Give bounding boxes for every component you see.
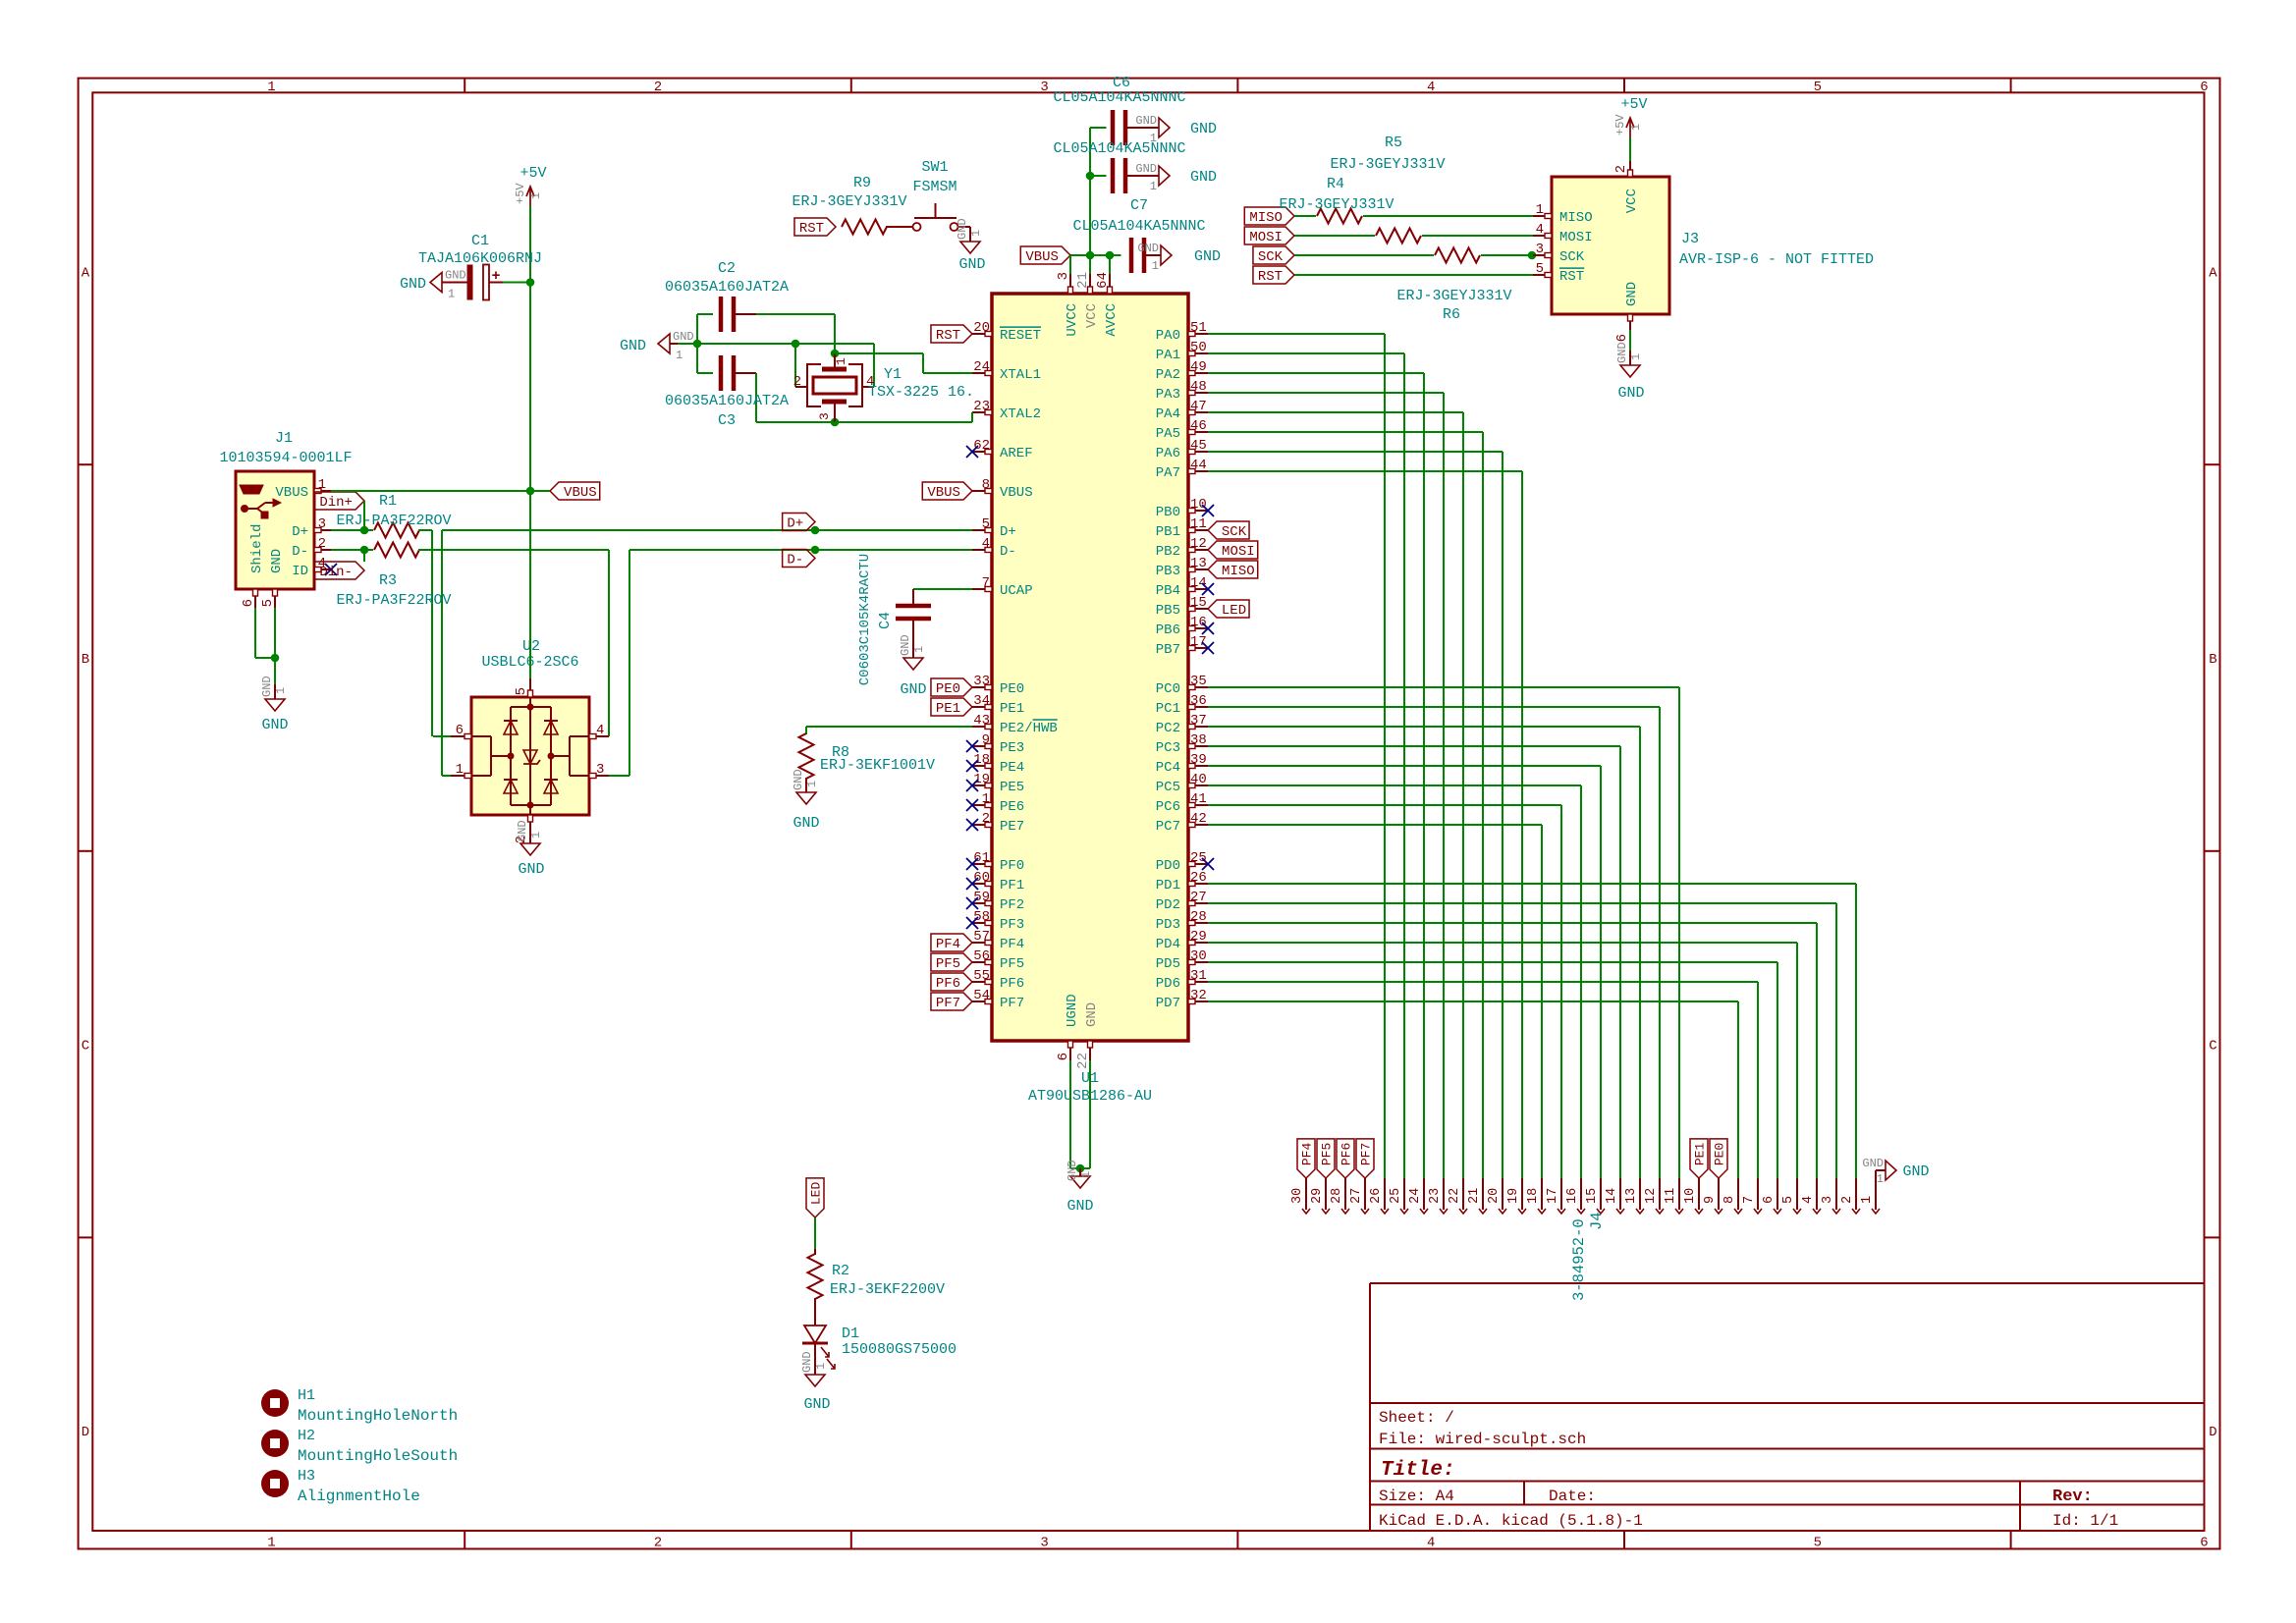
svg-text:ID: ID	[292, 564, 308, 579]
svg-text:GND: GND	[1190, 169, 1217, 186]
svg-text:5: 5	[260, 599, 276, 607]
svg-text:VBUS: VBUS	[1000, 485, 1033, 501]
svg-text:30: 30	[1190, 948, 1207, 964]
svg-text:40: 40	[1190, 772, 1207, 787]
svg-text:27: 27	[1190, 890, 1207, 905]
svg-text:MISO: MISO	[1249, 210, 1283, 226]
svg-text:61: 61	[973, 850, 990, 866]
svg-text:GND: GND	[269, 549, 285, 573]
svg-text:ERJ-3GEYJ331V: ERJ-3GEYJ331V	[1330, 156, 1445, 173]
svg-text:11: 11	[1664, 1188, 1678, 1204]
svg-text:PC0: PC0	[1156, 681, 1180, 697]
svg-text:UGND: UGND	[1065, 994, 1080, 1027]
svg-text:SW1: SW1	[921, 159, 948, 176]
svg-text:59: 59	[973, 890, 990, 905]
svg-text:AVCC: AVCC	[1104, 303, 1120, 337]
svg-text:3: 3	[1040, 1536, 1048, 1551]
svg-text:51: 51	[1190, 320, 1207, 336]
svg-text:PF0: PF0	[1000, 858, 1024, 874]
svg-text:46: 46	[1190, 418, 1207, 434]
svg-text:ERJ-3GEYJ331V: ERJ-3GEYJ331V	[1279, 196, 1394, 213]
svg-text:PA0: PA0	[1156, 328, 1180, 344]
svg-text:MountingHoleSouth: MountingHoleSouth	[298, 1447, 458, 1465]
svg-text:Title:: Title:	[1381, 1459, 1455, 1482]
svg-text:PD3: PD3	[1156, 917, 1180, 933]
svg-text:56: 56	[973, 948, 990, 964]
svg-text:+5V: +5V	[1613, 114, 1627, 135]
svg-text:PF2: PF2	[1000, 897, 1024, 913]
svg-text:PE0: PE0	[1000, 681, 1024, 697]
svg-text:GND: GND	[1615, 342, 1629, 363]
svg-text:2: 2	[1840, 1196, 1855, 1204]
svg-text:PD2: PD2	[1156, 897, 1180, 913]
svg-text:PD0: PD0	[1156, 858, 1180, 874]
svg-text:1: 1	[1536, 202, 1544, 218]
svg-text:GND: GND	[800, 1351, 814, 1373]
svg-text:C0603C105K4RACTU: C0603C105K4RACTU	[857, 554, 873, 685]
svg-text:R6: R6	[1443, 306, 1460, 323]
svg-text:GND: GND	[958, 256, 985, 273]
svg-text:PE6: PE6	[1000, 799, 1024, 815]
svg-text:1: 1	[1152, 259, 1159, 273]
svg-text:File: wired-sculpt.sch: File: wired-sculpt.sch	[1379, 1431, 1586, 1448]
svg-text:13: 13	[1624, 1188, 1639, 1204]
svg-text:PC3: PC3	[1156, 740, 1180, 756]
svg-text:PF3: PF3	[1000, 917, 1024, 933]
svg-text:Rev:: Rev:	[2052, 1488, 2093, 1506]
svg-text:PB6: PB6	[1156, 622, 1180, 638]
svg-text:4: 4	[596, 723, 604, 738]
svg-text:PE1: PE1	[936, 701, 960, 717]
svg-text:PC2: PC2	[1156, 721, 1180, 736]
svg-text:14: 14	[1190, 575, 1207, 591]
svg-text:28: 28	[1330, 1188, 1344, 1204]
svg-text:6: 6	[2200, 1536, 2208, 1551]
svg-text:23: 23	[973, 399, 990, 414]
svg-text:UCAP: UCAP	[1000, 583, 1033, 599]
svg-text:D-: D-	[292, 544, 308, 560]
svg-text:PF6: PF6	[1000, 976, 1024, 992]
svg-text:PD1: PD1	[1156, 878, 1180, 893]
svg-text:PE7: PE7	[1000, 819, 1024, 835]
svg-text:+5V: +5V	[519, 165, 546, 182]
svg-text:14: 14	[1605, 1188, 1619, 1204]
svg-text:+: +	[491, 268, 500, 285]
svg-text:PA7: PA7	[1156, 465, 1180, 481]
svg-text:Din-: Din-	[319, 565, 353, 580]
svg-text:PF6: PF6	[1339, 1143, 1354, 1165]
svg-text:D: D	[2209, 1425, 2216, 1440]
svg-text:PC7: PC7	[1156, 819, 1180, 835]
svg-text:PF4: PF4	[1300, 1143, 1315, 1166]
svg-text:1: 1	[274, 687, 288, 694]
svg-text:2: 2	[1613, 165, 1629, 173]
svg-text:29: 29	[1190, 929, 1207, 945]
svg-text:16: 16	[1190, 615, 1207, 630]
svg-text:Shield: Shield	[249, 524, 265, 573]
svg-text:GND: GND	[803, 1396, 830, 1413]
svg-text:C4: C4	[877, 612, 894, 629]
svg-text:6: 6	[1056, 1053, 1071, 1060]
svg-text:PF5: PF5	[1320, 1143, 1335, 1165]
svg-text:33: 33	[973, 674, 990, 689]
svg-text:12: 12	[1644, 1188, 1659, 1204]
svg-text:10: 10	[1190, 497, 1207, 513]
svg-text:C: C	[2209, 1039, 2216, 1055]
svg-text:GND: GND	[261, 717, 288, 733]
svg-text:VBUS: VBUS	[564, 485, 597, 501]
svg-text:PB5: PB5	[1156, 603, 1180, 619]
svg-text:21: 21	[1075, 272, 1091, 289]
svg-text:GND: GND	[1617, 385, 1644, 402]
svg-text:44: 44	[1190, 458, 1207, 473]
svg-text:PD5: PD5	[1156, 956, 1180, 972]
svg-text:10: 10	[1683, 1188, 1698, 1204]
svg-text:GND: GND	[620, 338, 646, 354]
svg-text:8: 8	[982, 477, 990, 493]
svg-text:43: 43	[973, 713, 990, 729]
svg-text:PF4: PF4	[1000, 937, 1024, 952]
svg-text:1: 1	[676, 349, 683, 362]
svg-text:3: 3	[1040, 80, 1048, 95]
svg-text:PB3: PB3	[1156, 564, 1180, 579]
svg-text:8: 8	[1722, 1196, 1737, 1204]
svg-text:3: 3	[1821, 1196, 1835, 1204]
svg-text:RST: RST	[1258, 269, 1283, 285]
svg-text:11: 11	[1190, 516, 1207, 532]
svg-text:PF1: PF1	[1000, 878, 1024, 893]
svg-text:PC1: PC1	[1156, 701, 1180, 717]
svg-text:A: A	[82, 265, 90, 281]
svg-text:AlignmentHole: AlignmentHole	[298, 1488, 420, 1505]
svg-text:ERJ-PA3F22ROV: ERJ-PA3F22ROV	[336, 592, 451, 609]
svg-text:XTAL1: XTAL1	[1000, 367, 1041, 383]
svg-text:Id: 1/1: Id: 1/1	[2052, 1512, 2118, 1530]
svg-text:1: 1	[1629, 124, 1643, 131]
svg-text:9: 9	[982, 732, 990, 748]
svg-text:PA1: PA1	[1156, 348, 1180, 363]
svg-text:ERJ-PA3F22ROV: ERJ-PA3F22ROV	[336, 513, 451, 529]
svg-text:06035A160JAT2A: 06035A160JAT2A	[665, 279, 789, 296]
svg-text:22: 22	[1448, 1188, 1462, 1204]
svg-text:PE0: PE0	[936, 681, 960, 697]
svg-text:R2: R2	[832, 1263, 849, 1279]
svg-text:1: 1	[1629, 353, 1643, 360]
svg-text:21: 21	[1467, 1188, 1482, 1204]
svg-text:1: 1	[912, 646, 926, 653]
svg-text:23: 23	[1428, 1188, 1443, 1204]
svg-text:54: 54	[973, 988, 990, 1003]
svg-text:17: 17	[1546, 1188, 1560, 1204]
svg-text:4: 4	[1427, 1536, 1435, 1551]
svg-text:RST: RST	[936, 328, 960, 344]
svg-text:PE1: PE1	[1000, 701, 1024, 717]
svg-text:GND: GND	[1190, 121, 1217, 137]
svg-text:GND: GND	[516, 820, 529, 841]
svg-text:1: 1	[834, 357, 848, 365]
svg-text:1: 1	[969, 230, 983, 237]
svg-text:16: 16	[1565, 1188, 1580, 1204]
svg-text:J3: J3	[1681, 231, 1699, 247]
svg-text:GND: GND	[1135, 114, 1157, 128]
svg-text:1: 1	[814, 1363, 828, 1370]
svg-text:Date:: Date:	[1549, 1488, 1596, 1505]
svg-text:R1: R1	[379, 493, 397, 510]
svg-text:28: 28	[1190, 909, 1207, 925]
svg-text:Size: A4: Size: A4	[1379, 1488, 1454, 1505]
svg-text:32: 32	[1190, 988, 1207, 1003]
svg-text:4: 4	[1536, 222, 1544, 238]
svg-text:D+: D+	[1000, 524, 1016, 540]
svg-text:MOSI: MOSI	[1559, 230, 1593, 245]
svg-text:60: 60	[973, 870, 990, 886]
svg-text:4: 4	[1427, 80, 1435, 95]
svg-text:55: 55	[973, 968, 990, 984]
svg-text:2: 2	[654, 80, 662, 95]
svg-text:C1: C1	[471, 233, 489, 249]
svg-text:29: 29	[1310, 1188, 1325, 1204]
svg-text:UVCC: UVCC	[1065, 303, 1080, 337]
svg-text:J1: J1	[275, 430, 293, 447]
svg-text:18: 18	[1526, 1188, 1541, 1204]
svg-text:RESET: RESET	[1000, 328, 1041, 344]
svg-text:ERJ-3GEYJ331V: ERJ-3GEYJ331V	[792, 193, 906, 210]
svg-text:PE2/HWB: PE2/HWB	[1000, 721, 1058, 736]
svg-text:R3: R3	[379, 572, 397, 589]
svg-text:R9: R9	[853, 175, 871, 191]
svg-text:R5: R5	[1385, 135, 1402, 151]
svg-text:7: 7	[982, 575, 990, 591]
svg-text:PF4: PF4	[936, 937, 960, 952]
svg-text:19: 19	[973, 772, 990, 787]
svg-text:C7: C7	[1130, 197, 1148, 214]
svg-text:PC5: PC5	[1156, 780, 1180, 795]
svg-text:64: 64	[1095, 272, 1111, 289]
svg-text:ERJ-3EKF1001V: ERJ-3EKF1001V	[820, 757, 935, 774]
svg-text:PC6: PC6	[1156, 799, 1180, 815]
svg-text:GND: GND	[1137, 242, 1159, 255]
svg-text:MISO: MISO	[1559, 210, 1593, 226]
svg-text:1: 1	[318, 477, 326, 493]
svg-text:GND: GND	[1862, 1157, 1884, 1170]
svg-text:PB1: PB1	[1156, 524, 1180, 540]
svg-text:1: 1	[1877, 1172, 1884, 1186]
svg-text:PA5: PA5	[1156, 426, 1180, 442]
svg-text:D: D	[82, 1425, 89, 1440]
svg-text:+5V: +5V	[1620, 96, 1647, 113]
svg-text:RST: RST	[799, 221, 824, 237]
svg-text:PA6: PA6	[1156, 446, 1180, 461]
svg-text:47: 47	[1190, 399, 1207, 414]
svg-text:GND: GND	[400, 276, 426, 293]
svg-text:13: 13	[1190, 556, 1207, 571]
svg-text:41: 41	[1190, 791, 1207, 807]
svg-text:TAJA106K006RNJ: TAJA106K006RNJ	[418, 250, 542, 267]
svg-text:10103594-0001LF: 10103594-0001LF	[219, 450, 352, 466]
svg-text:GND: GND	[900, 681, 926, 698]
svg-text:MISO: MISO	[1222, 564, 1255, 579]
svg-text:06035A160JAT2A: 06035A160JAT2A	[665, 393, 789, 409]
svg-text:PA4: PA4	[1156, 406, 1180, 422]
svg-text:GND: GND	[673, 330, 694, 344]
svg-text:19: 19	[1506, 1188, 1521, 1204]
svg-text:3-84952-0: 3-84952-0	[1570, 1218, 1588, 1301]
svg-text:12: 12	[1190, 536, 1207, 552]
svg-text:26: 26	[1369, 1188, 1384, 1204]
svg-text:PF7: PF7	[1000, 996, 1024, 1011]
svg-text:PF7: PF7	[1359, 1143, 1374, 1165]
svg-text:VCC: VCC	[1084, 303, 1100, 328]
svg-text:D-: D-	[787, 553, 803, 568]
svg-text:GND: GND	[1084, 1002, 1100, 1027]
svg-text:45: 45	[1190, 438, 1207, 454]
svg-text:30: 30	[1290, 1188, 1305, 1204]
svg-text:42: 42	[1190, 811, 1207, 827]
svg-text:PF5: PF5	[1000, 956, 1024, 972]
svg-text:6: 6	[1614, 334, 1630, 342]
svg-text:15: 15	[1190, 595, 1207, 611]
svg-text:3: 3	[1056, 272, 1071, 280]
svg-text:6: 6	[456, 723, 464, 738]
svg-text:GND: GND	[445, 269, 466, 283]
svg-text:GND: GND	[1135, 162, 1157, 176]
svg-text:GND: GND	[518, 861, 544, 878]
svg-text:AVR-ISP-6 - NOT FITTED: AVR-ISP-6 - NOT FITTED	[1679, 251, 1874, 268]
svg-text:VBUS: VBUS	[927, 485, 960, 501]
svg-text:ERJ-3GEYJ331V: ERJ-3GEYJ331V	[1396, 288, 1511, 304]
svg-text:17: 17	[1190, 634, 1207, 650]
svg-text:2: 2	[318, 536, 326, 552]
svg-text:5: 5	[1536, 261, 1544, 277]
svg-text:LED: LED	[1222, 603, 1246, 619]
svg-text:GND: GND	[793, 815, 819, 832]
svg-text:6: 6	[2200, 80, 2208, 95]
svg-text:PA2: PA2	[1156, 367, 1180, 383]
svg-text:3: 3	[596, 762, 604, 778]
svg-text:J4: J4	[1588, 1212, 1606, 1230]
svg-text:KiCad E.D.A. kicad (5.1.8)-1: KiCad E.D.A. kicad (5.1.8)-1	[1379, 1512, 1643, 1530]
svg-text:57: 57	[973, 929, 990, 945]
svg-text:LED: LED	[809, 1182, 824, 1206]
svg-text:B: B	[2209, 652, 2216, 668]
svg-text:CL05A104KA5NNNC: CL05A104KA5NNNC	[1072, 218, 1205, 235]
svg-text:5: 5	[1781, 1196, 1796, 1204]
svg-text:1: 1	[448, 288, 455, 301]
svg-text:9: 9	[1703, 1196, 1718, 1204]
svg-text:A: A	[2209, 265, 2217, 281]
svg-text:RST: RST	[1559, 269, 1584, 285]
svg-text:1: 1	[805, 781, 819, 787]
svg-text:PF7: PF7	[936, 996, 960, 1011]
svg-text:1: 1	[982, 791, 990, 807]
svg-text:H2: H2	[298, 1428, 315, 1444]
svg-text:TSX-3225 16.: TSX-3225 16.	[868, 384, 974, 401]
svg-text:50: 50	[1190, 340, 1207, 355]
svg-text:5: 5	[982, 516, 990, 532]
svg-text:1: 1	[1860, 1196, 1875, 1204]
svg-text:38: 38	[1190, 732, 1207, 748]
svg-text:PD6: PD6	[1156, 976, 1180, 992]
svg-text:Y1: Y1	[884, 366, 902, 383]
svg-text:1: 1	[529, 192, 543, 199]
svg-text:GND: GND	[956, 218, 969, 240]
svg-text:22: 22	[1075, 1053, 1091, 1069]
svg-text:4: 4	[1801, 1196, 1816, 1204]
svg-text:PC4: PC4	[1156, 760, 1180, 776]
svg-text:37: 37	[1190, 713, 1207, 729]
svg-text:25: 25	[1190, 850, 1207, 866]
svg-text:GND: GND	[1902, 1163, 1929, 1180]
svg-text:PB2: PB2	[1156, 544, 1180, 560]
svg-text:Sheet: /: Sheet: /	[1379, 1409, 1454, 1427]
svg-text:GND: GND	[260, 676, 274, 697]
svg-text:PE0: PE0	[1713, 1143, 1727, 1165]
svg-text:36: 36	[1190, 693, 1207, 709]
svg-text:H3: H3	[298, 1468, 315, 1485]
svg-text:CL05A104KA5NNNC: CL05A104KA5NNNC	[1053, 140, 1185, 157]
svg-text:18: 18	[973, 752, 990, 768]
svg-text:C: C	[82, 1039, 89, 1055]
svg-text:XTAL2: XTAL2	[1000, 406, 1041, 422]
svg-text:AREF: AREF	[1000, 446, 1033, 461]
svg-text:1: 1	[267, 80, 275, 95]
svg-text:VBUS: VBUS	[1025, 249, 1059, 265]
svg-text:PB4: PB4	[1156, 583, 1180, 599]
svg-text:GND: GND	[1066, 1160, 1079, 1181]
svg-text:PE1: PE1	[1693, 1143, 1708, 1166]
svg-text:+5V: +5V	[514, 183, 527, 204]
svg-text:GND: GND	[792, 769, 805, 790]
svg-text:1: 1	[267, 1536, 275, 1551]
svg-text:1: 1	[456, 762, 464, 778]
svg-text:48: 48	[1190, 379, 1207, 395]
svg-text:D+: D+	[292, 524, 308, 540]
svg-text:58: 58	[973, 909, 990, 925]
svg-text:SCK: SCK	[1559, 249, 1585, 265]
svg-text:20: 20	[1487, 1188, 1502, 1204]
svg-text:5: 5	[1814, 80, 1822, 95]
svg-text:150080GS75000: 150080GS75000	[842, 1341, 957, 1358]
svg-text:24: 24	[973, 359, 990, 375]
svg-text:PE3: PE3	[1000, 740, 1024, 756]
svg-text:D-: D-	[1000, 544, 1016, 560]
svg-text:24: 24	[1408, 1188, 1423, 1204]
svg-text:GND: GND	[1624, 282, 1640, 306]
svg-text:PD7: PD7	[1156, 996, 1180, 1011]
svg-text:35: 35	[1190, 674, 1207, 689]
svg-text:PB0: PB0	[1156, 505, 1180, 520]
svg-text:1: 1	[529, 832, 543, 839]
svg-text:FSMSM: FSMSM	[912, 179, 957, 195]
svg-text:SCK: SCK	[1258, 249, 1284, 265]
svg-text:GND: GND	[899, 634, 912, 656]
svg-text:4: 4	[982, 536, 990, 552]
svg-text:5: 5	[514, 687, 529, 695]
svg-text:Din+: Din+	[319, 495, 353, 511]
svg-text:R4: R4	[1327, 176, 1344, 192]
svg-text:PF5: PF5	[936, 956, 960, 972]
svg-text:39: 39	[1190, 752, 1207, 768]
svg-text:1: 1	[1079, 1171, 1093, 1178]
svg-text:3: 3	[318, 516, 326, 532]
svg-text:31: 31	[1190, 968, 1207, 984]
svg-text:PD4: PD4	[1156, 937, 1180, 952]
svg-text:VBUS: VBUS	[275, 485, 308, 501]
svg-text:5: 5	[1814, 1536, 1822, 1551]
svg-text:2: 2	[793, 374, 801, 390]
svg-text:20: 20	[973, 320, 990, 336]
svg-text:MOSI: MOSI	[1222, 544, 1255, 560]
